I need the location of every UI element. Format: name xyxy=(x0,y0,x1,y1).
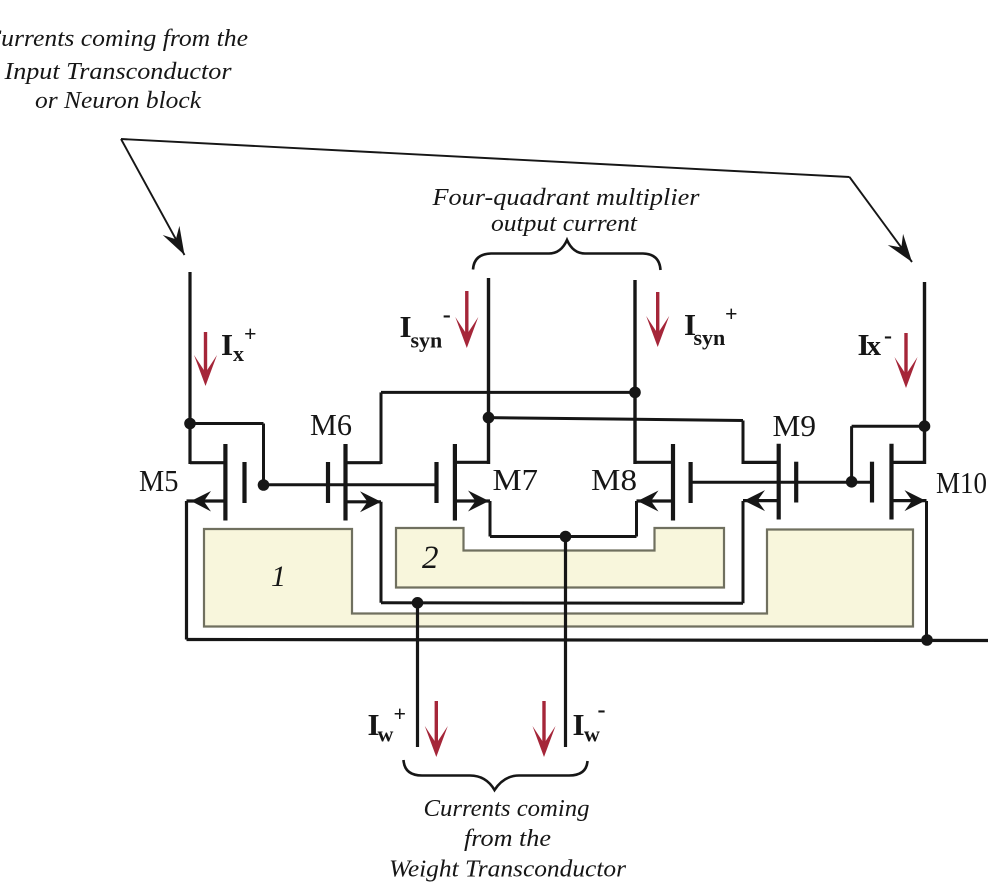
svg-text:M9: M9 xyxy=(773,409,817,443)
wire Ix+ vertical xyxy=(188,272,191,464)
node Isyn- cross junction xyxy=(483,412,495,424)
svg-text:I: I xyxy=(221,327,233,362)
label Isyn+ xyxy=(684,301,738,350)
wire M7 source drop xyxy=(489,501,492,537)
wire M6 drain vertical xyxy=(380,392,383,464)
transistor M7 xyxy=(437,444,491,521)
annotation text: weight currents label xyxy=(389,796,627,883)
svg-text:M7: M7 xyxy=(493,463,539,497)
transistor M6 xyxy=(328,444,381,521)
wire Isyn- vertical xyxy=(487,278,490,464)
wire upper cross line xyxy=(381,391,635,394)
svg-text:syn: syn xyxy=(694,325,726,350)
svg-text:Weight Transconductor: Weight Transconductor xyxy=(389,857,627,883)
svg-text:-: - xyxy=(443,302,451,328)
svg-text:2: 2 xyxy=(422,540,439,576)
node M10 gate rail junction xyxy=(846,476,858,488)
transistor M9 xyxy=(743,444,796,520)
svg-text:Four-quadrant multiplier: Four-quadrant multiplier xyxy=(431,185,700,211)
label Iw- xyxy=(573,697,606,747)
wire Ix- vertical xyxy=(923,282,926,464)
svg-text:-: - xyxy=(598,697,606,723)
transistor M5 xyxy=(187,444,245,521)
wire M9 drain vertical xyxy=(742,421,745,465)
svg-text:1: 1 xyxy=(271,560,286,593)
node M5 gate rail junction xyxy=(258,479,270,491)
annotation arrow to Ix- wire xyxy=(850,177,913,262)
node M5 drain-gate junction xyxy=(184,418,196,430)
svg-text:M10: M10 xyxy=(936,466,987,500)
svg-text:M8: M8 xyxy=(591,463,637,497)
wire M10 source drop xyxy=(925,501,928,640)
svg-text:M6: M6 xyxy=(310,408,352,442)
svg-text:+: + xyxy=(244,321,257,346)
annotation arrow to Ix+ wire xyxy=(121,139,185,255)
svg-text:w: w xyxy=(584,722,600,747)
wire tail horizontal xyxy=(490,535,637,538)
wire lower cross line xyxy=(489,418,744,421)
wire source rail xyxy=(381,601,743,605)
current arrow Ix- xyxy=(895,333,918,388)
annotation leader line to right input xyxy=(121,139,850,177)
svg-text:x: x xyxy=(867,330,882,362)
label Ix+ xyxy=(221,321,257,366)
wire M8 source drop xyxy=(635,501,638,537)
node Isyn+ cross junction xyxy=(629,387,641,399)
label Isyn- xyxy=(400,302,451,353)
label Ix- xyxy=(858,323,893,362)
current arrow Isyn+ xyxy=(646,292,669,347)
svg-text:from the: from the xyxy=(464,826,551,852)
wire M6 source drop xyxy=(380,502,383,603)
current arrow Isyn- xyxy=(455,291,478,348)
svg-text:syn: syn xyxy=(411,328,443,353)
bulk region 2 xyxy=(396,528,724,588)
wire M10 gate tap vertical xyxy=(850,426,853,482)
current arrow Iw+ xyxy=(425,701,448,757)
svg-text:I: I xyxy=(573,707,585,742)
wire Isyn+ vertical xyxy=(633,280,636,464)
brace under Iw inputs xyxy=(404,760,588,790)
wire M5 gate tap vertical xyxy=(262,424,265,486)
svg-text:Currents coming from the: Currents coming from the xyxy=(0,26,248,52)
node tail junction xyxy=(560,531,572,543)
current arrow Iw- xyxy=(533,701,556,757)
wire Iw- vertical xyxy=(564,537,567,748)
svg-text:w: w xyxy=(378,722,394,747)
wire M5 source drop xyxy=(185,501,188,640)
wire M10 gate tap horizontal xyxy=(852,425,925,428)
node M10 drain-gate junction xyxy=(919,420,931,432)
wire bottom rail xyxy=(187,640,988,641)
svg-text:output current: output current xyxy=(491,211,638,237)
node bottom rail junction xyxy=(921,634,933,646)
annotation text: four-quadrant multiplier output xyxy=(431,185,700,237)
svg-text:+: + xyxy=(725,301,738,326)
wire right gate rail xyxy=(691,481,872,484)
wire left gate rail xyxy=(264,483,437,486)
bulk region 1 xyxy=(204,529,913,627)
transistor M8 xyxy=(635,444,691,521)
svg-text:or Neuron block: or Neuron block xyxy=(35,88,201,114)
label Iw+ xyxy=(368,701,407,747)
brace over Isyn outputs xyxy=(473,240,661,270)
current arrow Ix+ xyxy=(194,332,217,386)
svg-text:Input Transconductor: Input Transconductor xyxy=(3,59,232,85)
transistor M10 xyxy=(872,444,927,520)
wire M9 source drop xyxy=(742,501,745,603)
svg-text:-: - xyxy=(884,323,892,349)
wire M5 gate tap horizontal xyxy=(190,422,264,425)
svg-text:M5: M5 xyxy=(139,464,179,498)
svg-text:x: x xyxy=(233,341,244,366)
svg-text:Currents coming: Currents coming xyxy=(424,796,590,822)
annotation text: input currents label xyxy=(0,26,248,114)
wire Iw+ vertical xyxy=(416,603,419,747)
node Iw+ junction xyxy=(412,597,424,609)
svg-text:+: + xyxy=(394,701,407,726)
